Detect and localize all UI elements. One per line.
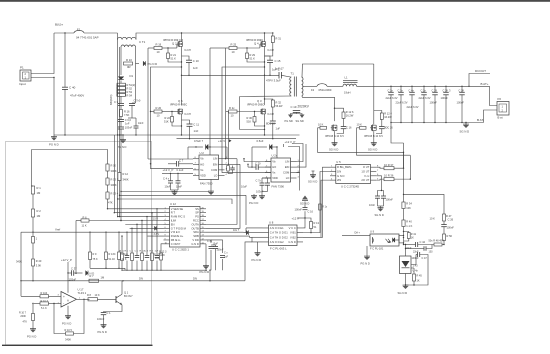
svg-text:Q 4: Q 4 [254, 41, 259, 45]
junction tl431 [405, 244, 406, 245]
svg-text:4x K: 4x K [122, 258, 127, 261]
svg-text:C 16: C 16 [308, 209, 314, 213]
wire U2x gate routes up [292, 144, 303, 162]
svg-text:G N D: G N D [337, 174, 345, 178]
wire C1x to source [337, 129, 344, 134]
capacitor row R x [125, 255, 130, 257]
wire U2x EIN feed [248, 166, 252, 168]
svg-text:R 47: R 47 [446, 214, 452, 218]
svg-text:10uF: 10uF [165, 185, 171, 189]
svg-text:R 104: R 104 [41, 292, 48, 295]
capacitor C4b [176, 180, 181, 182]
svg-text:2O UT: 2O UT [361, 178, 369, 182]
resistor row R 0 [151, 253, 154, 261]
wire BAT- to P2 [484, 110, 498, 123]
wire R21 to source [168, 59, 182, 63]
wire U12 left pin 8 [164, 235, 170, 237]
wire C15 bottom [269, 63, 271, 76]
wire U2x VDD cap leg [262, 177, 271, 179]
resistor SRL gate 10K [320, 126, 327, 129]
svg-text:F C PL-181: F C PL-181 [370, 247, 384, 251]
svg-text:SG N D: SG N D [398, 291, 408, 295]
svg-text:R 52: R 52 [127, 86, 133, 90]
resistor R53 [117, 90, 126, 93]
junction vref [32, 231, 33, 232]
junction fb rail [390, 122, 392, 124]
wire U5 right pin 4 [371, 179, 377, 181]
capacitor C26b [381, 195, 386, 197]
wire C10 bottom [188, 63, 190, 76]
svg-text:50x R 48 45 K: 50x R 48 45 K [429, 239, 445, 242]
resistor R34 [402, 202, 405, 209]
resistor R25 [229, 47, 237, 50]
wire ll res bottom bus [90, 267, 125, 269]
wire comp row leg 1 [121, 236, 123, 253]
transformer CT1 secondary winding [121, 45, 136, 47]
wire D1 to resistor stack [120, 81, 122, 84]
svg-text:R 12 6: R 12 6 [346, 110, 354, 114]
junction r45 [411, 284, 413, 286]
svg-text:U 9: U 9 [370, 230, 375, 234]
wire c26 down [443, 227, 445, 234]
svg-text:C 2K 3: C 2K 3 [443, 88, 451, 92]
svg-text:LO: LO [286, 176, 290, 180]
ground PGND column [122, 138, 124, 141]
wire R10 to PGND arrow [136, 63, 140, 65]
svg-text:7.5K: 7.5K [124, 113, 130, 117]
resistor row R 1x [121, 253, 124, 261]
junction R32 node [264, 98, 265, 99]
svg-text:R 40: R 40 [36, 259, 42, 263]
junction SR-L drain [334, 108, 335, 109]
capacitor row C 3 [145, 255, 150, 257]
capacitor C17 dc-block [278, 72, 280, 79]
svg-text:R EF/E A+: R EF/E A+ [171, 234, 184, 238]
junction Q2 drain rail [181, 32, 182, 33]
ground PGND c1q [103, 323, 105, 326]
wire U12 right pin 4 [200, 219, 206, 221]
resistor ll R 13C [105, 252, 108, 260]
wire primary bottom route [240, 96, 291, 130]
resistor ll R 1xx [118, 252, 121, 260]
wire Q4 gate wire [226, 47, 230, 49]
svg-text:10: 10 [157, 50, 160, 54]
svg-text:SG N D: SG N D [375, 213, 384, 217]
wire r107 down [32, 321, 34, 328]
svg-text:22uF 6.3V: 22uF 6.3V [407, 105, 419, 109]
wire SRL gate [318, 127, 321, 129]
mosfet Q5 [177, 109, 179, 114]
wire U2 COM bottom drop [210, 180, 212, 190]
svg-text:VDD: VDD [272, 176, 278, 180]
resistor R10 (CT burden) [124, 62, 133, 65]
arrow opto slashes U9 [386, 239, 389, 243]
svg-text:+12 V: +12 V [218, 139, 225, 143]
wire c1q gnd [103, 315, 105, 323]
capacitor C 2x output [421, 91, 427, 93]
svg-text:SG N D: SG N D [300, 201, 309, 205]
resistor R50 [443, 234, 446, 241]
svg-text:19uH: 19uH [344, 91, 350, 95]
wire R6 vertical drop [75, 220, 77, 273]
wire C40 bottom leg [64, 89, 66, 135]
wire vref bus [33, 231, 164, 233]
wire r40b down [32, 266, 34, 281]
svg-text:+12 V_P: +12 V_P [61, 258, 72, 262]
capacitor C33 [220, 255, 225, 257]
svg-text:R 10: R 10 [111, 164, 117, 168]
transformer T1 [290, 77, 292, 96]
svg-text:R 32: R 32 [276, 100, 282, 104]
wire R20 to gate [162, 111, 177, 113]
wire C11 stub [182, 120, 190, 124]
wire div2 [107, 185, 109, 192]
svg-text:FB /E A-: FB /E A- [171, 238, 181, 242]
wire P1 pin2 to node [31, 33, 54, 74]
svg-text:75 K: 75 K [93, 258, 98, 261]
optocoupler U9 FCPL-181 [370, 234, 399, 246]
svg-text:51 K: 51 K [171, 56, 177, 60]
inductor L1 [343, 84, 357, 86]
svg-text:SRB: SRB [193, 234, 199, 238]
svg-text:F2: F2 [311, 88, 315, 92]
junction bus drop [209, 270, 210, 271]
svg-text:LIN: LIN [213, 157, 217, 161]
junction comp top [403, 194, 404, 195]
diode D1 [118, 77, 124, 80]
svg-text:16.2W: 16.2W [346, 113, 354, 117]
svg-text:200K: 200K [20, 315, 26, 318]
resistor R41 [407, 233, 410, 239]
junction comp [160, 270, 161, 271]
wire VB1 to U5 [303, 171, 330, 232]
svg-text:103nF: 103nF [256, 189, 264, 193]
svg-text:R 20: R 20 [156, 106, 162, 110]
wire U12 left pin 2 [164, 212, 170, 214]
svg-text:R 10: R 10 [126, 58, 132, 62]
wire c47 loop [416, 254, 418, 256]
wire R29 leg [246, 48, 248, 53]
wire output cap 5 legs [434, 86, 436, 92]
capacitor C19 Y-cap [293, 109, 301, 111]
svg-text:DN: DN [139, 276, 143, 280]
svg-text:10 K: 10 K [357, 122, 363, 126]
svg-text:R 19: R 19 [156, 42, 162, 46]
wire secondary mid out [302, 85, 317, 87]
svg-text:LO: LO [214, 173, 218, 177]
svg-text:P1: P1 [20, 66, 24, 70]
wire U12 right pin 3 [200, 216, 206, 218]
svg-text:PG N D: PG N D [148, 62, 158, 66]
connector P2 [497, 102, 509, 116]
svg-text:0R: 0R [127, 65, 131, 69]
svg-text:PS: PS [195, 215, 199, 219]
svg-text:N-CH: N-CH [185, 113, 191, 116]
junction r40b [32, 280, 33, 281]
junction R30 tap [254, 111, 255, 112]
ground PGND U2 com [210, 190, 212, 193]
wire U2x COM down [297, 173, 300, 191]
svg-text:10nF: 10nF [406, 246, 412, 250]
wire VB2 to U5 [303, 167, 330, 237]
svg-text:340K: 340K [123, 178, 129, 182]
svg-text:8DC 16: 8DC 16 [266, 122, 275, 126]
wire DCOUT stub [469, 74, 490, 87]
wire output bottom rail [391, 122, 484, 124]
wire ll res 3 bot [118, 260, 120, 269]
wire U2x left pin 3 stub [265, 172, 271, 174]
junction cap 6 [445, 86, 446, 87]
svg-text:51 K: 51 K [250, 56, 256, 60]
wire Q5 source to rail [181, 114, 183, 135]
wire c3x right [426, 245, 432, 249]
wire U8 right pin 2 [297, 232, 303, 234]
svg-text:C 26: C 26 [448, 217, 454, 221]
resistor row C 1 [131, 253, 134, 261]
svg-text:R 2x: R 2x [229, 106, 235, 110]
junction bootU2 [195, 146, 196, 147]
svg-text:DA +: DA + [355, 232, 361, 235]
junction R21 tap [167, 47, 168, 48]
svg-text:R 50: R 50 [447, 234, 453, 238]
junction lin [225, 158, 226, 159]
svg-text:U C C 27324D: U C C 27324D [341, 185, 359, 189]
diode U9 LED [393, 238, 395, 243]
wire U12 input mesh row 3 [118, 216, 164, 218]
resistor R47 [443, 214, 446, 221]
svg-text:22uF 6.3V: 22uF 6.3V [396, 101, 408, 105]
svg-text:0.5uF: 0.5uF [257, 139, 264, 143]
svg-text:V SEN SE: V SEN SE [171, 207, 184, 211]
resistor R122 [160, 253, 163, 260]
wire U8 right pin 3 [297, 236, 303, 238]
capacitor C16b [303, 207, 308, 209]
wire fb seg3 [403, 227, 405, 245]
wire U2 right pin 4 stub [219, 174, 225, 176]
svg-text:0534-0069: 0534-0069 [319, 88, 332, 92]
svg-text:51.1K: 51.1K [109, 258, 116, 261]
wire q1 emitter [104, 305, 123, 312]
junction Q3 source [264, 125, 265, 126]
wire divider top [32, 150, 108, 165]
svg-text:L1: L1 [345, 75, 348, 79]
svg-text:R 30: R 30 [247, 116, 253, 120]
wire opamp +in [21, 295, 40, 297]
wire node B [264, 46, 266, 105]
wire SRR snubber arm [374, 111, 382, 114]
svg-text:04 7741-001 5AP: 04 7741-001 5AP [76, 35, 99, 39]
wire sec top down to SR right [373, 64, 375, 111]
junction c37 [67, 272, 68, 273]
wire U12 left pin 10 [164, 243, 170, 245]
wire ref to r45 [411, 267, 414, 269]
capacitor C1y snubber [379, 126, 385, 128]
svg-text:C 3: C 3 [114, 100, 119, 104]
junction sgnd out [465, 122, 466, 123]
resistor R13 [310, 222, 313, 229]
resistor R29 [246, 53, 249, 59]
resistor R30 [253, 117, 256, 123]
svg-text:R AM P/C S: R AM P/C S [171, 215, 186, 219]
svg-text:C 15: C 15 [275, 59, 281, 63]
fuse F2 [317, 84, 327, 87]
resistor R124 snubber [380, 113, 383, 119]
wire C7 to pin [179, 163, 193, 165]
svg-text:R 45: R 45 [417, 275, 423, 278]
junction mesh [114, 212, 115, 213]
resistor R134 [106, 192, 109, 199]
svg-text:100nF: 100nF [97, 317, 105, 321]
svg-text:.: . [303, 77, 304, 81]
wire vcc caps gnd [377, 198, 379, 206]
wire U2x right pin 3 stub [291, 172, 297, 174]
svg-text:P2: P2 [498, 97, 502, 101]
svg-text:R 6: R 6 [83, 215, 88, 219]
wire C70 gnd [261, 185, 263, 194]
wire long bus y199 [118, 199, 232, 204]
svg-text:C 11: C 11 [193, 123, 199, 127]
svg-text:1.1 K: 1.1 K [406, 224, 412, 228]
svg-text:R 13C: R 13C [109, 253, 116, 256]
junction r13 [310, 232, 311, 233]
svg-text:G N D: G N D [288, 240, 296, 244]
wire U12 right pin 10 [200, 243, 206, 245]
svg-text:SG N D: SG N D [308, 180, 317, 184]
transformer CT1 primary winding [118, 37, 137, 39]
junction r36 [403, 167, 404, 168]
IC U5 UCC27324D [336, 165, 371, 184]
svg-text:.: . [124, 34, 125, 39]
wire BAT+ to P2 [490, 86, 498, 105]
svg-text:C 16: C 16 [346, 126, 352, 130]
wire SRR source down [373, 131, 375, 141]
svg-text:103nF: 103nF [125, 126, 133, 130]
svg-text:U 4x: U 4x [413, 269, 419, 273]
wire U2 left pin 3 stub [193, 169, 199, 171]
wire SRL snubber arm [335, 108, 344, 112]
svg-text:1.43: 1.43 [413, 263, 419, 267]
svg-text:N-CH: N-CH [268, 113, 274, 116]
capacitor C71 vdd [265, 182, 270, 184]
svg-text:Vb: Vb [200, 157, 204, 161]
wire U2x HO left [252, 166, 256, 168]
wire output cap 2 legs [400, 86, 402, 92]
svg-text:PG N D: PG N D [49, 143, 59, 147]
wire SRR gate [357, 127, 360, 129]
ground PGND C4 [174, 190, 176, 193]
capacitor C31 [209, 246, 214, 248]
wire c37 to gnd arrow [74, 272, 83, 274]
svg-text:47PV 3.5uF: 47PV 3.5uF [266, 79, 281, 83]
wire r45 legs [413, 268, 415, 274]
wire output cap 7 legs [461, 86, 463, 92]
capacitor C3 snubber [118, 103, 124, 105]
resistor R22 [171, 117, 174, 123]
junction comp r50 [443, 244, 444, 245]
svg-text:FAN 7390: FAN 7390 [272, 184, 285, 188]
wire comp top loop [404, 194, 445, 214]
capacitor row C x [135, 255, 140, 257]
svg-text:V B2: V B2 [290, 235, 296, 239]
svg-text:Q 1: Q 1 [124, 290, 129, 294]
resistor R4a [32, 237, 35, 244]
svg-text:R 1x: R 1x [322, 207, 328, 209]
svg-text:10 R 37: 10 R 37 [384, 163, 394, 167]
wire mesh vertical x121b [120, 135, 122, 220]
wire C15 stub [265, 56, 271, 60]
wire C17 to T1 [281, 75, 290, 77]
svg-text:R 41: R 41 [411, 233, 417, 236]
wire q1 collector [121, 281, 123, 294]
resistor R40 [402, 220, 405, 227]
svg-text:C 3x: C 3x [398, 88, 404, 92]
capacitor C1q [103, 312, 105, 313]
wire U2 Vs to gate bus [209, 48, 211, 155]
capacitor C47 [417, 252, 419, 257]
svg-text:C 37: C 37 [71, 266, 77, 270]
svg-text:U C C 2825 1: U C C 2825 1 [172, 247, 189, 251]
wire U2 right pin 2 stub [219, 163, 225, 165]
resistor R1 [31, 186, 34, 194]
svg-text:C 7x: C 7x [256, 178, 262, 182]
svg-text:10nF: 10nF [138, 122, 144, 125]
capacitor C7s snubber [129, 103, 135, 105]
wire comp row leg 8 [156, 209, 158, 253]
svg-text:R 51(2): R 51(2) [127, 83, 136, 87]
junction c3x [431, 244, 433, 246]
wire C71 leg [262, 178, 268, 183]
wire R13 to VB1 [310, 229, 312, 233]
junction R6 drop [75, 273, 76, 274]
wire R30 to source [255, 122, 265, 126]
svg-text:C T1: C T1 [139, 40, 146, 44]
svg-text:PG N D: PG N D [252, 258, 262, 262]
junction bus [67, 280, 69, 282]
svg-text:R 10 5: R 10 5 [65, 329, 73, 332]
wire U2x left pin 4 stub [265, 177, 271, 179]
svg-text:Q 5: Q 5 [178, 99, 183, 103]
wire col to rail [120, 129, 122, 135]
transistor Q1 BC847 [115, 296, 117, 303]
resistor R37 [384, 167, 394, 170]
resistor ll R 9 [89, 252, 92, 260]
svg-text:U 5: U 5 [336, 160, 341, 164]
diode U8 input [246, 230, 248, 234]
svg-text:SP: SP [195, 211, 199, 215]
resistor R16 [120, 110, 123, 117]
wire vcc cap up [304, 211, 306, 218]
junction u8vcc [304, 217, 305, 218]
resistor R8 out [88, 298, 98, 301]
wire U8 left pin 3 [263, 236, 269, 238]
svg-text:U 2: U 2 [200, 151, 205, 155]
wire U2 LIN from OUTA [225, 158, 238, 160]
wire U12 left pin 6 [164, 227, 170, 229]
capacitor row 1uF [155, 255, 160, 257]
diode D bootstrap U2x [270, 144, 273, 149]
wire snubber col2 [132, 102, 136, 104]
IC U4x TL431 [400, 256, 412, 274]
capacitor C 2K 3 output [443, 91, 449, 93]
wire c47 wire [406, 248, 412, 250]
wire U2 left pin 2 stub [193, 163, 199, 165]
capacitor C26a [375, 195, 380, 197]
wire comp bottom [404, 244, 416, 246]
wire fb tap from output rail [391, 123, 404, 144]
capacitor C10 [186, 59, 192, 61]
ground PGND opamp [67, 314, 69, 317]
junction C40 top [64, 32, 65, 33]
